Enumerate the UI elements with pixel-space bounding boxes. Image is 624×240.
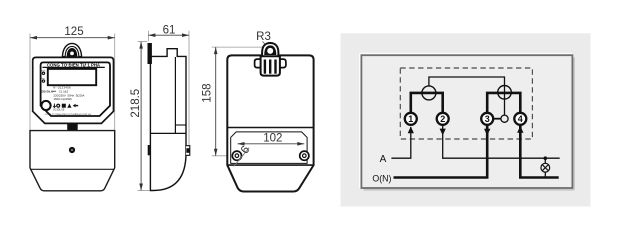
terminal cover trapezoid: [31, 168, 114, 170]
flow arrow out of terminal 3 (down): [484, 129, 490, 136]
LCD: [48, 69, 96, 85]
dim 102: [238, 143, 305, 145]
wire: neutral O(N) to terminal 3: [394, 125, 488, 178]
meter cover (octagon): [33, 57, 114, 123]
terminal 1: [405, 113, 417, 125]
svg-text:kWh: kWh: [42, 70, 46, 72]
dia 6 leader: [234, 148, 249, 167]
wire: voltage tap (coil L1 top to coil L2 / link terminal): [429, 77, 505, 115]
svg-text:61: 61: [163, 25, 176, 37]
solid frame: [361, 55, 572, 188]
seal tick left: [148, 145, 150, 155]
wire: link terminal 3 to voltage link: [493, 118, 501, 120]
dim 61: [147, 31, 149, 41]
svg-text:4: 4: [518, 114, 523, 124]
flow arrow into terminal 1 (up): [408, 126, 414, 133]
svg-text:SC-ĐL 05: SC-ĐL 05: [53, 108, 65, 112]
svg-text:GB-DLX: GB-DLX: [41, 89, 54, 93]
terminal 3: [481, 113, 493, 125]
black cap: [264, 45, 276, 55]
LED indicator imp: [42, 79, 45, 82]
hanger dome front: [62, 43, 81, 56]
flow arrow out of terminal 2 (down): [440, 129, 446, 136]
svg-text:CÔNG TƠ ĐIỆN TỬ 1 PHA: CÔNG TƠ ĐIỆN TỬ 1 PHA: [47, 62, 100, 67]
hanging bracket: [255, 43, 286, 76]
voltage coil L2 (between terminals 3-4): [498, 86, 512, 100]
flow arrow into terminal 4 (up): [517, 126, 523, 133]
voltage link terminal (small circle): [501, 115, 508, 122]
svg-text:CÔNG TY TNHH TM DV KT ĐIỆN HD: CÔNG TY TNHH TM DV KT ĐIỆN HD 0123 VN: [45, 113, 91, 116]
dim 125 extension lines: [29, 34, 31, 131]
mid horizontal line: [150, 132, 186, 134]
lamp load E1: [541, 163, 550, 172]
dim 218.5: [138, 41, 148, 43]
wire: neutral out from terminal 4: [520, 126, 558, 178]
base section: [30, 131, 115, 191]
gray panel: [341, 33, 591, 206]
arch dome: [262, 43, 278, 56]
terminal 4: [514, 113, 526, 125]
svg-text:3: 3: [485, 114, 490, 124]
grill bars: [264, 60, 266, 74]
side body outline: [150, 49, 186, 191]
optical port circle: [41, 101, 50, 110]
wire: current loop terminals 1-2: [411, 93, 443, 114]
svg-text:102: 102: [263, 133, 282, 145]
wire: phase out from terminal 2 to load: [443, 125, 560, 158]
wire: phase A in to terminal 1: [391, 127, 410, 158]
dim 125 line: [30, 37, 115, 39]
svg-text:O(N): O(N): [372, 173, 391, 183]
current coil L1 (between terminals 1-2): [422, 86, 436, 100]
band top line: [227, 127, 313, 129]
svg-text:imp: imp: [42, 78, 45, 80]
icon row: [53, 104, 78, 108]
svg-text:1600 imp/kWh: 1600 imp/kWh: [53, 97, 72, 101]
svg-text:158: 158: [201, 84, 213, 103]
label plate (octagon): [41, 62, 110, 116]
inner vertical (cover parting line): [174, 57, 176, 133]
terminal 2: [437, 113, 449, 125]
screw center: [69, 147, 75, 153]
band bottom line: [227, 164, 313, 166]
svg-text:218.5: 218.5: [130, 89, 142, 118]
svg-text:2: 2: [440, 114, 445, 124]
wings: [255, 59, 261, 68]
svg-text:A: A: [380, 154, 387, 165]
solid frame highlight: [360, 53, 572, 55]
svg-text:R3: R3: [256, 31, 271, 43]
screw hole right: [300, 151, 309, 160]
screw hole left: [232, 151, 241, 160]
inner band chamfered rect: [231, 132, 307, 164]
hanger plate black: [148, 43, 152, 64]
dashed meter boundary: [400, 68, 532, 139]
black seal tab under cover: [67, 123, 78, 131]
dim 158: [212, 46, 263, 48]
R3 hole: [267, 48, 273, 54]
terminal screw right: [186, 146, 190, 156]
svg-text:125: 125: [64, 26, 83, 38]
wire: loop terminals 3-4: [487, 93, 520, 114]
short horizontal bezel line: [175, 124, 186, 126]
svg-text:1: 1: [408, 114, 413, 124]
wire: lamp branch + junction dot: [544, 158, 546, 177]
body outline: [227, 55, 313, 191]
LED indicator kWh: [42, 72, 45, 75]
solid frame shadow: [364, 189, 575, 191]
clamp block: [261, 56, 280, 75]
